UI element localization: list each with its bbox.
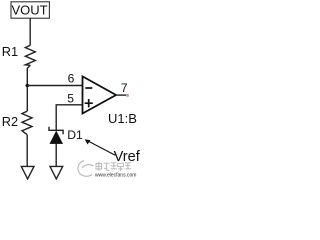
svg-text:R2: R2 bbox=[2, 114, 18, 129]
op-amp plus input symbol bbox=[85, 99, 93, 107]
svg-text:U1:B: U1:B bbox=[108, 111, 137, 126]
Vref pointer arrowhead bbox=[85, 139, 91, 144]
node VOUT terminal box bbox=[11, 2, 49, 18]
ground (right) bbox=[50, 166, 63, 179]
svg-text:6: 6 bbox=[68, 72, 75, 86]
wire D1 to ground bbox=[55, 144, 57, 167]
watermark chinese text strokes bbox=[96, 162, 131, 171]
svg-text:R1: R1 bbox=[2, 44, 18, 59]
pin 7 end marker bbox=[126, 94, 129, 97]
diode D1 body bbox=[50, 131, 63, 143]
svg-text:D1: D1 bbox=[67, 128, 83, 142]
wire op-amp output pin 7 bbox=[116, 94, 127, 96]
wire pin 5 net: corner to op-amp bbox=[56, 105, 82, 130]
resistor R2 bbox=[22, 111, 32, 134]
wire R2 to ground bbox=[26, 135, 28, 167]
op-amp minus input symbol bbox=[85, 87, 92, 89]
node junction dot bbox=[26, 84, 30, 88]
svg-text:7: 7 bbox=[121, 81, 128, 95]
Vref pointer arrow wire bbox=[88, 141, 115, 155]
op-amp U1:B body bbox=[83, 76, 117, 113]
svg-text:www.elecfans.com: www.elecfans.com bbox=[95, 172, 136, 178]
svg-text:5: 5 bbox=[67, 92, 74, 106]
diode D1 (zener) cathode bar bbox=[49, 127, 63, 134]
wire junction to R2 bbox=[26, 86, 28, 112]
wire junction to op-amp pin 6 bbox=[27, 85, 82, 87]
wire R1 to junction (with jog) bbox=[27, 65, 30, 85]
ground (left) bbox=[21, 166, 34, 179]
resistor R1 bbox=[25, 45, 35, 65]
svg-text:VOUT: VOUT bbox=[11, 3, 47, 18]
watermark logo swirl bbox=[78, 161, 94, 177]
wire VOUT to R1 bbox=[29, 18, 31, 45]
